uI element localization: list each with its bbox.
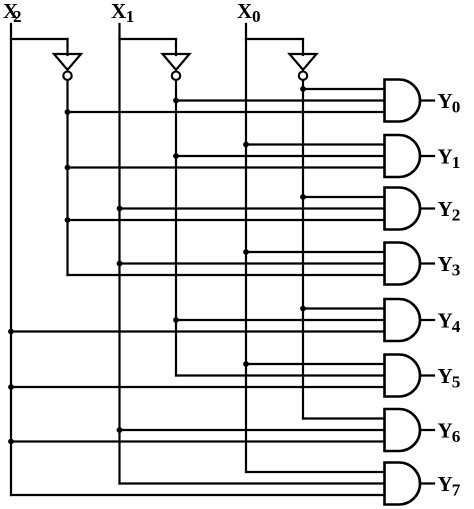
svg-text:6: 6	[452, 427, 461, 446]
svg-text:7: 7	[452, 481, 461, 500]
svg-text:Y: Y	[438, 89, 453, 113]
svg-text:X: X	[237, 0, 252, 23]
svg-text:Y: Y	[438, 252, 453, 276]
svg-text:Y: Y	[438, 419, 453, 443]
svg-text:1: 1	[452, 153, 461, 172]
svg-text:Y: Y	[438, 197, 453, 221]
svg-text:X: X	[111, 0, 126, 23]
svg-text:Y: Y	[438, 472, 453, 496]
svg-text:Y: Y	[438, 145, 453, 169]
svg-text:Y: Y	[438, 364, 453, 388]
svg-text:0: 0	[252, 7, 261, 26]
svg-text:5: 5	[452, 373, 461, 392]
svg-text:2: 2	[452, 206, 461, 225]
svg-text:3: 3	[452, 261, 461, 280]
svg-text:Y: Y	[438, 309, 453, 333]
svg-text:2: 2	[13, 7, 22, 26]
svg-text:0: 0	[452, 98, 461, 117]
svg-text:4: 4	[452, 317, 461, 336]
svg-text:1: 1	[126, 7, 135, 26]
